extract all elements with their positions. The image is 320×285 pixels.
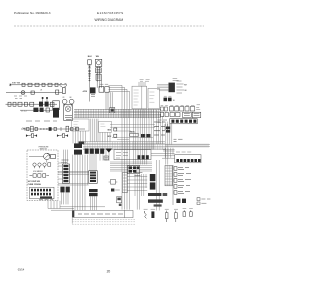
svg-text:16: 16 (173, 100, 175, 102)
ground tabs left of strip (165, 124, 170, 130)
bottom box left stub (72, 211, 74, 224)
relay block dark lower (74, 150, 82, 155)
board top stubs (139, 82, 145, 86)
wires comb to J3 (163, 148, 175, 158)
svg-text:EF: EF (70, 97, 72, 99)
thermistor RT1 (145, 211, 147, 218)
inline connector C10 (13, 102, 16, 106)
power cord block (53, 101, 60, 110)
splice dots (40, 128, 48, 130)
keypad membrane box (30, 187, 55, 199)
chain end cap (60, 83, 67, 86)
inline connector C12 (24, 102, 27, 106)
harness connector column P1 (62, 164, 69, 183)
dispenser dashed enclosure (27, 150, 58, 201)
condenser fan motor M1 (62, 99, 67, 104)
cross wires mid left (58, 163, 89, 185)
svg-text:EVAP FAN: EVAP FAN (12, 81, 21, 84)
inline connector C6 (55, 83, 58, 86)
bottom dark label rows (148, 193, 161, 196)
wires box R down (100, 132, 110, 141)
vertical harness bundle board (134, 109, 154, 164)
lamp symbol L1 (21, 91, 25, 95)
right sensor column item 1 (174, 167, 189, 171)
wire to fuse (45, 92, 62, 94)
wire motor stems (64, 104, 66, 106)
small note text left mid (26, 120, 57, 122)
narrow sensor duct box (122, 173, 127, 193)
defrost thermostat pair dark (39, 102, 43, 107)
inline connector C1 (22, 83, 25, 86)
dispenser solenoid row (29, 174, 49, 177)
wire chain upper left (10, 84, 66, 86)
inline connector C13 (30, 102, 34, 106)
svg-text:WIRING DIAGRAM: WIRING DIAGRAM (95, 18, 124, 22)
right sensor column item 4 (174, 185, 190, 189)
splice block dark B (40, 108, 44, 112)
right connector row 2 (160, 112, 200, 117)
lamp bracket (61, 127, 75, 131)
right column feed wire (172, 165, 174, 205)
junction blobs above terminal box (117, 197, 122, 203)
4-pin connector block A dark (90, 87, 96, 93)
small text block below P1 (59, 162, 61, 192)
right connector row 1 (160, 107, 194, 111)
pressure switch actuator (44, 153, 50, 159)
wire band1 turn down (157, 110, 163, 144)
fresh food lamp LP2 (66, 126, 69, 131)
water valve solenoid pair dark (164, 95, 172, 97)
bottom terminal box (74, 210, 133, 217)
wires band3 down (135, 160, 159, 210)
relay row dark cells (85, 149, 105, 154)
inline connector C9 (8, 102, 11, 106)
plug shell dark A (60, 187, 64, 193)
thermistor RT3 (175, 211, 178, 222)
inline connector C4 (42, 83, 45, 86)
svg-text:CF: CF (62, 97, 64, 99)
4-pin connector block B (99, 83, 108, 85)
ribbon2 comb texture (85, 142, 163, 150)
label above J1 (173, 79, 179, 81)
mid control box cells (137, 155, 148, 159)
splice block dark A (33, 108, 38, 112)
svg-text:20: 20 (107, 270, 111, 274)
freezer lamp LP1 (31, 126, 34, 131)
splice cluster dark on band three (128, 165, 140, 173)
splice blob left of ribbon2 (79, 141, 85, 144)
aux switch box (51, 154, 56, 158)
inline socket 3 (54, 127, 56, 130)
inline connector C11 (18, 102, 22, 106)
inline connector C8 (56, 90, 59, 94)
thermal fuse F1 (63, 87, 66, 93)
sensor bead S1 (42, 97, 44, 99)
harness connector column P2 (89, 171, 97, 184)
small junction box left of mid box (104, 156, 109, 160)
ice maker mold heater H1 (88, 60, 92, 82)
board ribbon to right (157, 84, 168, 90)
right sensor column item 5 (174, 191, 190, 195)
P1 label text (62, 160, 69, 162)
heater resistor dark column (150, 174, 156, 181)
wire keypad to terminal box (48, 201, 105, 210)
inline connector J1 dark (169, 83, 175, 93)
capacitor dark (151, 211, 154, 218)
inline lamp socket (27, 127, 29, 130)
wire mid box to J3 (151, 153, 175, 158)
auger motor trio (33, 163, 51, 168)
inline connector C2 (28, 83, 32, 86)
inline connector C7 (31, 91, 34, 94)
lower harness row (20, 109, 56, 111)
ice maker connector plug (96, 74, 101, 80)
right harness box J3 (175, 155, 201, 163)
inline connector C3 (35, 83, 39, 86)
plug shell dark B (89, 189, 98, 192)
right connector strip J2 (170, 119, 197, 124)
svg-text:4-PIN: 4-PIN (83, 90, 88, 93)
small dash labels (134, 173, 142, 176)
inline socket 4 (71, 127, 73, 130)
svg-text:SWITCH: SWITCH (40, 149, 48, 151)
tick marks under chain (14, 96, 27, 98)
wires board area to mid bundle (109, 85, 130, 209)
mid control box (114, 150, 151, 160)
wire into enclosure (46, 160, 48, 163)
wire chain lower left (6, 92, 45, 94)
ice maker thermostat (95, 59, 101, 82)
mid connector dark (49, 127, 52, 131)
evaporator fan motor M2 (69, 99, 74, 104)
svg-text:Publication No. 0908429-3: Publication No. 0908429-3 (14, 11, 51, 15)
wire color legend dashes (154, 122, 165, 135)
relay box R (99, 121, 112, 132)
thermistor RT2 (165, 211, 168, 222)
labels above bottom items (144, 208, 193, 211)
switch chain row (21, 128, 85, 130)
defrost heater chain (6, 103, 58, 105)
terminal node star (9, 83, 11, 86)
wires box L down (73, 131, 86, 143)
svg-text:CUBE CRUSH: CUBE CRUSH (28, 184, 42, 186)
horizontal wire links upper mid (110, 124, 155, 139)
keypad cells row1 (31, 189, 51, 192)
vertical wires right cluster (166, 122, 172, 165)
bottom box dark end cap (72, 211, 74, 218)
evaporator grid box (165, 165, 172, 185)
svg-text:ICE WATER: ICE WATER (33, 170, 43, 173)
keypad bottom strip (40, 196, 52, 198)
compressor unit with start relay (64, 105, 73, 121)
board internal marks (134, 90, 139, 105)
small dark mark lower left (111, 189, 114, 192)
ice maker motor module (96, 68, 102, 73)
thermistor RT4 (183, 210, 186, 216)
svg-text:03/14: 03/14 (18, 268, 25, 272)
inline socket 2 (35, 127, 37, 130)
dark junction triangle (106, 149, 112, 153)
mid box internal dashes (116, 152, 128, 158)
inline connector C5 (48, 83, 52, 86)
sensor bead S2 (46, 97, 48, 99)
main control board (132, 86, 147, 109)
relay box L (72, 119, 90, 131)
wire icemaker to harness (90, 74, 102, 102)
small relay lower left (111, 180, 116, 185)
right column bottom plugs (176, 199, 180, 203)
right sensor column item 3 (174, 179, 191, 183)
main harness ribbon upper (74, 110, 161, 118)
main harness ribbon lower (83, 142, 165, 150)
wires band2 to connectors below (64, 150, 110, 211)
header dashed separator rule (14, 25, 204, 27)
svg-text:S/C DISP SW: S/C DISP SW (28, 181, 40, 183)
inline connector C15 (46, 108, 50, 112)
door switch SW1 (23, 127, 25, 130)
ribbon tie ticks (76, 109, 159, 118)
right connector row labels (161, 104, 195, 106)
dashes below keypad (39, 199, 53, 201)
svg-text:BLK: BLK (88, 56, 93, 58)
display board (148, 88, 159, 108)
door switch symbol B (57, 134, 68, 138)
tiny labels right cluster (196, 105, 200, 110)
power cord plug dark (53, 108, 59, 118)
inline connector C14 (50, 102, 54, 106)
thermistor RT5 (190, 210, 193, 216)
relay block dark upper (74, 143, 82, 148)
keypad cells row2 (31, 193, 51, 196)
ribbon band three (110, 162, 152, 171)
svg-text:E24M7080PPS: E24M7080PPS (97, 11, 124, 15)
door switch symbol A (26, 134, 37, 138)
bottom dotted shield lines (72, 219, 135, 224)
right sensor column item 2 (174, 173, 191, 177)
inline socket 5 (76, 127, 79, 130)
svg-text:JC 2-1: JC 2-1 (21, 111, 27, 113)
vertical harness bundle center (90, 119, 98, 142)
junction box on band (110, 108, 115, 113)
wires 4pinB down to band (106, 92, 112, 109)
wire plugs down (62, 192, 97, 210)
far right tiny labels (197, 198, 210, 205)
ribbon comb right (165, 144, 210, 148)
small labels above J3 (166, 127, 170, 130)
horizontal links lower mid (127, 177, 147, 191)
wire stub labels right of J1 (177, 81, 185, 93)
